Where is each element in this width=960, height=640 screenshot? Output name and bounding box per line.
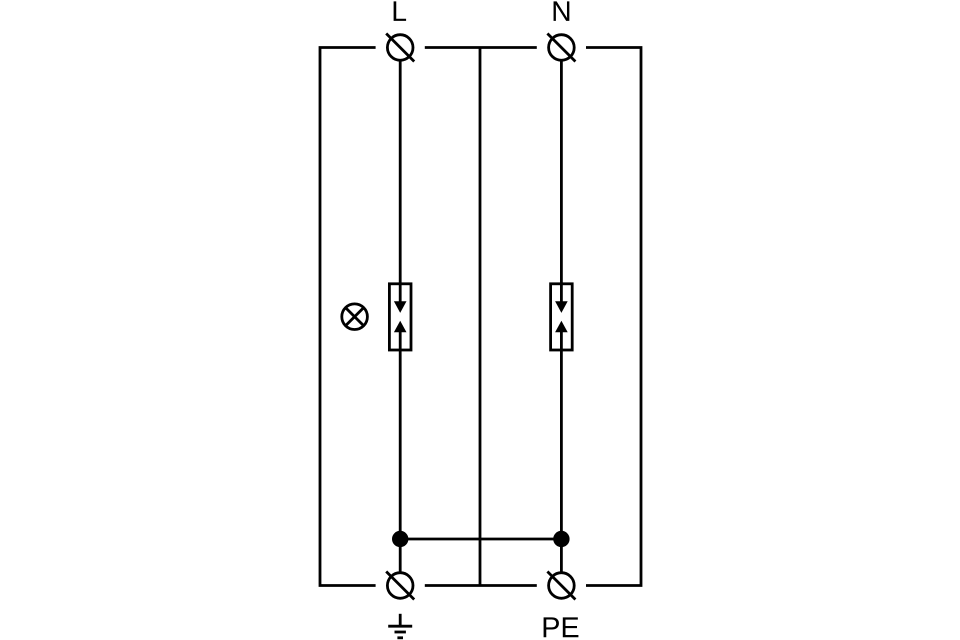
enclosure border left section — [320, 48, 376, 586]
indicator lamp — [342, 304, 368, 330]
terminal PE (bottom right) — [549, 573, 575, 599]
ground symbol — [399, 614, 402, 626]
surge arrester F2 arrows — [555, 301, 568, 313]
node junction dot N — [553, 531, 569, 547]
wire N branch upper — [560, 60, 563, 302]
wire L branch lower — [399, 331, 402, 573]
label L — [394, 1, 406, 20]
enclosure border bottom middle segment — [425, 584, 537, 587]
wire L branch upper — [399, 60, 402, 302]
node junction dot L — [392, 531, 408, 547]
terminal N — [549, 35, 575, 61]
terminal ground (bottom left) — [387, 573, 413, 599]
surge arrester F2 (N) rectangle — [551, 284, 573, 350]
wire junction bottom horizontal — [400, 538, 561, 541]
label PE — [544, 617, 579, 637]
enclosure border top middle segment — [425, 46, 537, 49]
surge arrester F1 arrows — [394, 301, 407, 313]
terminal L — [387, 35, 413, 61]
wire middle vertical (L-N cross connection) — [479, 48, 482, 586]
label N — [554, 1, 570, 20]
wire N branch lower — [560, 331, 563, 573]
enclosure border right section — [586, 48, 641, 586]
surge arrester F1 (L) rectangle — [389, 284, 411, 350]
